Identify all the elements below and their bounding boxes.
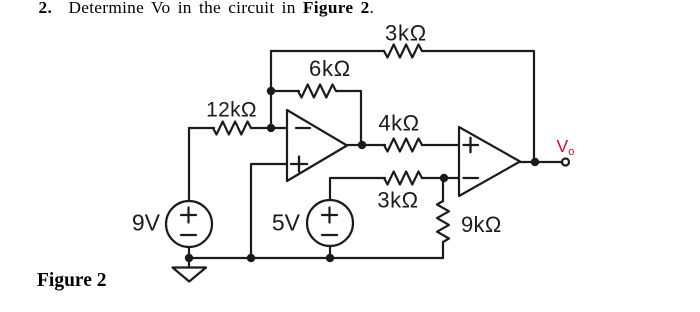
junction node ground tap: [185, 254, 193, 262]
wire from 9V to 12k: [189, 127, 214, 129]
junction node 5V minus: [326, 254, 334, 262]
svg-text:9V: 9V: [132, 210, 161, 236]
junction node at 6k tap: [267, 87, 275, 95]
svg-text:4kΩ: 4kΩ: [378, 111, 419, 136]
svg-text:12kΩ: 12kΩ: [206, 99, 257, 122]
label 12k: [206, 99, 257, 122]
resistor 9k: [437, 178, 449, 258]
junction node at U2 inverting input / 9k tap: [440, 174, 448, 182]
label 6k: [309, 56, 351, 81]
wire 4k to U2 noninverting input: [422, 144, 459, 146]
figure caption: [37, 270, 107, 292]
wire top feedback right segment: [422, 51, 534, 162]
wire U1 output to 4k: [347, 144, 385, 146]
wire 6k branch left: [271, 90, 299, 92]
node Vo terminal: [562, 159, 569, 166]
resistor 6k (feedback): [298, 85, 336, 98]
wire 5V to 3k lower: [330, 178, 385, 200]
op-amp U1: [287, 110, 347, 181]
junction node at U1 inverting input: [267, 124, 275, 132]
title text: [39, 0, 375, 18]
junction node U1 output: [358, 141, 366, 149]
svg-text:6kΩ: 6kΩ: [309, 56, 351, 81]
wire left vertical (inverting node riser): [270, 51, 272, 128]
ground: [173, 258, 207, 282]
source 9V V1: [166, 128, 212, 258]
svg-text:Vo: Vo: [557, 136, 575, 158]
junction node U1 plus riser: [247, 254, 255, 262]
svg-text:5V: 5V: [272, 210, 301, 236]
wire 3k lower to U2 inverting input: [422, 177, 459, 179]
op-amp U2: [459, 127, 520, 196]
label 9V: [132, 210, 161, 236]
label 4k: [378, 111, 419, 136]
resistor 12k: [213, 122, 251, 135]
wire U1 noninverting input: [251, 164, 287, 258]
wire 6k branch right, down to U1 output: [336, 91, 361, 145]
svg-text:3kΩ: 3kΩ: [377, 188, 418, 213]
resistor 4k: [384, 139, 422, 152]
wire bottom rail: [189, 257, 443, 259]
label 5V: [272, 210, 301, 236]
resistor 3k (top feedback): [384, 45, 422, 58]
svg-text:9kΩ: 9kΩ: [461, 212, 502, 237]
label 9k: [461, 212, 502, 237]
svg-text:3kΩ: 3kΩ: [385, 21, 427, 46]
wire 12k to U1 inverting input: [251, 127, 287, 129]
junction node U2 output: [531, 158, 539, 166]
resistor 3k (lower): [384, 172, 422, 185]
wire top feedback left segment: [271, 50, 384, 52]
label Vo: [557, 136, 575, 158]
label 3k top: [385, 21, 427, 46]
wire U2 output to terminal: [520, 161, 562, 163]
source 5V V2: [307, 200, 353, 258]
label 3k lower: [377, 188, 418, 213]
